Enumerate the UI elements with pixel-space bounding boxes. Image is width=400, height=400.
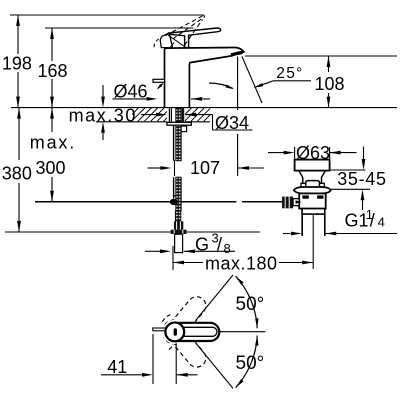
svg-text:max.: max. xyxy=(30,132,76,152)
svg-text:Ø34: Ø34 xyxy=(215,113,249,133)
svg-text:Ø46: Ø46 xyxy=(114,81,148,101)
svg-text:max.180: max.180 xyxy=(205,253,278,273)
svg-text:107: 107 xyxy=(190,158,220,178)
svg-text:108: 108 xyxy=(315,74,345,94)
svg-text:380: 380 xyxy=(2,163,32,183)
svg-text:G: G xyxy=(195,234,209,254)
svg-text:/: / xyxy=(370,210,375,230)
svg-text:50°: 50° xyxy=(236,294,265,315)
svg-text:168: 168 xyxy=(38,61,68,81)
svg-text:198: 198 xyxy=(2,54,32,74)
svg-text:4: 4 xyxy=(378,214,385,229)
svg-text:max.30: max.30 xyxy=(69,105,137,125)
svg-text:300: 300 xyxy=(36,158,66,178)
svg-text:50°: 50° xyxy=(236,353,265,374)
svg-text:35-45: 35-45 xyxy=(337,169,387,189)
svg-text:41: 41 xyxy=(107,357,127,377)
svg-text:/: / xyxy=(217,234,222,254)
svg-text:Ø63: Ø63 xyxy=(296,143,330,163)
svg-text:25°: 25° xyxy=(276,65,303,82)
